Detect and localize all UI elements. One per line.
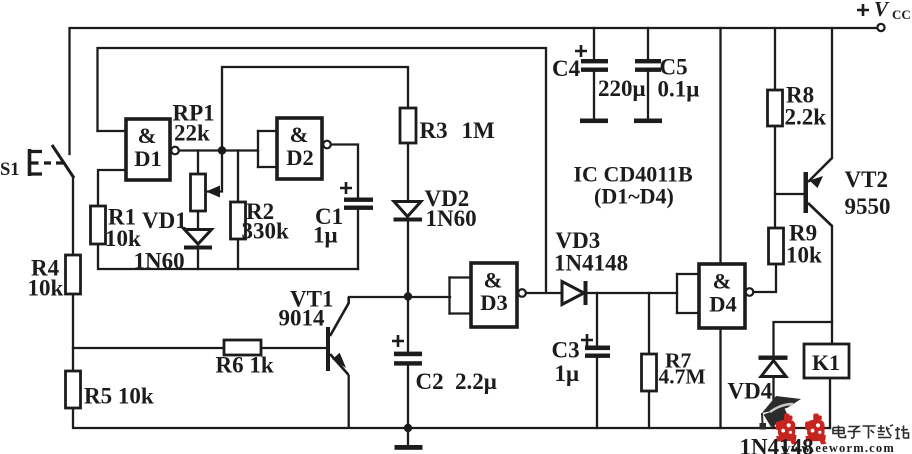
svg-text:4.7M: 4.7M [659,365,706,389]
svg-text:CC: CC [892,7,911,22]
svg-text:1N4148: 1N4148 [740,435,814,454]
svg-text:C3: C3 [552,338,580,363]
svg-text:D2: D2 [286,145,314,170]
svg-text:1N60: 1N60 [426,206,477,231]
svg-text:1μ: 1μ [313,223,338,248]
svg-text:1N60: 1N60 [134,249,185,274]
svg-text:&: & [713,269,732,294]
svg-text:S1: S1 [0,160,20,180]
svg-text:9550: 9550 [845,194,891,219]
svg-text:&: & [138,123,157,148]
svg-text:1N4148: 1N4148 [554,251,628,276]
svg-text:0.1μ: 0.1μ [658,77,700,102]
svg-text:K1: K1 [812,350,840,375]
svg-text:R3: R3 [420,118,448,143]
svg-text:R6 1k: R6 1k [216,353,274,378]
svg-text:1μ: 1μ [555,361,580,386]
svg-text:VT2: VT2 [845,167,888,192]
svg-text:C2: C2 [416,369,444,394]
svg-text:V: V [874,0,890,21]
svg-text:D3: D3 [480,290,508,315]
svg-text:2.2k: 2.2k [785,105,827,130]
svg-text:C4: C4 [552,56,581,81]
svg-text:10k: 10k [105,226,141,251]
svg-text:9014: 9014 [279,306,326,331]
svg-text:220μ: 220μ [598,76,646,101]
svg-text:&: & [290,122,309,147]
svg-text:VD3: VD3 [556,228,601,253]
svg-text:R5 10k: R5 10k [84,384,154,409]
svg-text:10k: 10k [786,243,822,268]
svg-text:22k: 22k [174,121,210,146]
svg-text:&: & [484,268,503,293]
svg-text:VD4: VD4 [728,379,773,404]
svg-text:D4: D4 [709,292,737,317]
svg-text:2.2μ: 2.2μ [455,369,497,394]
svg-text:VD1: VD1 [142,208,187,233]
svg-text:10k: 10k [28,276,64,301]
svg-text:1M: 1M [462,118,496,143]
svg-text:330k: 330k [242,219,290,244]
svg-text:D1: D1 [134,146,162,171]
svg-text:(D1~D4): (D1~D4) [594,184,674,209]
